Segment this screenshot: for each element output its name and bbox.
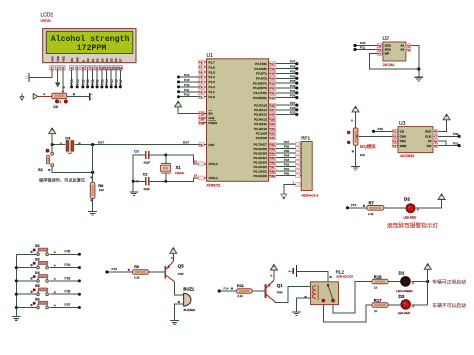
svg-text:3: 3	[62, 66, 64, 70]
svg-text:BUZ1: BUZ1	[183, 287, 195, 292]
wire relay coil bottom to ground	[297, 298, 311, 312]
svg-text:20pF: 20pF	[144, 187, 151, 191]
wire A1 to ground rail	[411, 46, 419, 78]
wire P12 to R7	[348, 207, 367, 209]
svg-text:CH1: CH1	[400, 139, 406, 143]
svg-text:P0.2/AD2: P0.2/AD2	[254, 165, 268, 169]
svg-text:P01: P01	[91, 79, 95, 85]
svg-text:P25: P25	[70, 79, 74, 85]
svg-text:32: 32	[271, 142, 275, 146]
svg-text:8: 8	[92, 66, 94, 70]
svg-text:P0.3/AD3: P0.3/AD3	[254, 160, 268, 164]
svg-text:P04: P04	[105, 79, 109, 85]
svg-text:车辆不可以启动: 车辆不可以启动	[432, 302, 466, 309]
ground MQ	[351, 165, 360, 167]
svg-text:P3.5/T1: P3.5/T1	[256, 72, 267, 76]
ground relay coil	[292, 311, 301, 313]
svg-text:D2: D2	[404, 197, 410, 202]
power arrow EA	[175, 101, 182, 107]
wire LCD pin to net P27	[82, 70, 84, 87]
wire button bus	[15, 254, 17, 316]
RP1 common pin 1	[296, 183, 301, 187]
wire battery to relay common	[296, 271, 328, 282]
U3 pin VCC	[433, 129, 438, 133]
wire LCD data pin to net P02	[96, 70, 98, 87]
svg-text:27: 27	[271, 108, 275, 112]
wire D3 to power rail	[411, 304, 427, 306]
svg-text:4: 4	[71, 66, 73, 70]
power arrow LEDs	[424, 264, 431, 270]
wire S5 to net P36	[49, 293, 79, 295]
transistor Q5	[164, 266, 166, 279]
svg-text:P0.7/AD7: P0.7/AD7	[254, 142, 268, 146]
svg-text:P1.0: P1.0	[209, 95, 216, 99]
wire Q1 collector to relay coil	[275, 286, 311, 302]
wire P11 to SDA	[355, 49, 377, 51]
ground buzzer	[170, 320, 179, 322]
svg-text:D0: D0	[86, 58, 90, 62]
svg-text:12: 12	[271, 86, 275, 90]
U1 EA pin	[199, 111, 205, 115]
svg-text:P35: P35	[65, 250, 71, 254]
U3 pin CH0	[392, 134, 397, 138]
svg-text:12MHz: 12MHz	[175, 171, 185, 175]
svg-text:172PPM: 172PPM	[77, 44, 107, 53]
svg-text:WP: WP	[385, 52, 390, 56]
U3 pin CS	[392, 129, 397, 133]
svg-text:P33: P33	[290, 79, 296, 83]
svg-text:S6: S6	[35, 297, 40, 301]
svg-text:P13: P13	[184, 78, 190, 82]
wire relay NO to R18	[333, 282, 372, 313]
svg-text:16: 16	[271, 67, 275, 71]
svg-text:33: 33	[271, 147, 275, 151]
svg-text:D3: D3	[399, 294, 405, 299]
svg-text:CH0: CH0	[400, 135, 406, 139]
wire S3 to net P34	[49, 267, 79, 269]
svg-text:13: 13	[114, 66, 118, 70]
U3 pin GND	[392, 144, 397, 148]
svg-text:P3.2/INT0: P3.2/INT0	[253, 86, 267, 90]
svg-text:D6: D6	[114, 58, 118, 62]
wire Q1 emitter to power	[273, 271, 275, 281]
svg-text:P27: P27	[82, 79, 86, 85]
svg-text:U1: U1	[207, 53, 214, 59]
svg-text:6: 6	[201, 70, 203, 74]
wire LCD pin to net P26	[76, 70, 78, 87]
svg-text:24: 24	[271, 122, 275, 126]
wire LCD data pin to net P06	[115, 70, 117, 87]
svg-text:36: 36	[271, 160, 275, 164]
svg-text:8: 8	[201, 60, 203, 64]
svg-text:P0.4/AD4: P0.4/AD4	[254, 156, 268, 160]
svg-text:S5: S5	[35, 284, 40, 288]
microcontroller U1 body	[207, 59, 269, 182]
wire R18 to D1	[388, 281, 401, 283]
ground-terminal VSS	[28, 73, 30, 82]
wire reset rail	[51, 134, 53, 145]
svg-text:Q1: Q1	[277, 283, 283, 288]
svg-text:35: 35	[271, 156, 275, 160]
wire LCD data pin to net P00	[87, 70, 89, 87]
svg-text:P34: P34	[65, 263, 71, 267]
svg-text:3: 3	[394, 139, 396, 143]
svg-text:车辆可正常启动: 车辆可正常启动	[432, 278, 466, 285]
svg-text:VCC: VCC	[425, 130, 432, 134]
wire LCD data pin to net P01	[91, 70, 93, 87]
terminal bar right of RV1	[89, 93, 91, 100]
svg-text:酒驾醉驾报警指示灯: 酒驾醉驾报警指示灯	[387, 222, 438, 230]
svg-text:10: 10	[271, 96, 275, 100]
svg-text:2.2k: 2.2k	[237, 294, 243, 298]
U3 pin DO	[433, 144, 438, 148]
svg-text:P05: P05	[284, 149, 290, 153]
ground crystal	[130, 191, 139, 193]
svg-text:1: 1	[51, 66, 53, 70]
svg-text:P07: P07	[284, 140, 290, 144]
svg-text:P26: P26	[76, 79, 80, 85]
svg-text:P14: P14	[224, 286, 230, 290]
svg-text:程序错误时，可点此复位: 程序错误时，可点此复位	[39, 177, 85, 184]
RP1 pins	[296, 142, 301, 146]
svg-text:P02: P02	[96, 79, 100, 85]
wire VCC to power	[438, 120, 447, 131]
svg-text:15: 15	[271, 72, 275, 76]
svg-text:VSS: VSS	[50, 56, 54, 62]
svg-text:D3: D3	[100, 58, 104, 62]
U1 XTAL2 pin	[199, 162, 205, 166]
svg-text:13: 13	[271, 81, 275, 85]
adc U3 body	[398, 127, 433, 153]
svg-text:P14: P14	[184, 73, 190, 77]
svg-text:LED-RED: LED-RED	[398, 311, 410, 315]
svg-text:P37: P37	[65, 303, 71, 307]
svg-text:10: 10	[100, 66, 104, 70]
svg-text:1: 1	[394, 130, 396, 134]
relay RL2 body	[311, 282, 339, 305]
power arrow Q1	[270, 264, 277, 270]
wire crystal left rail	[133, 155, 145, 192]
svg-text:11: 11	[105, 66, 109, 70]
ground R8	[88, 211, 97, 213]
wire RP1 pin1 to power	[284, 185, 296, 195]
svg-text:P13: P13	[112, 267, 118, 271]
svg-text:2: 2	[394, 135, 396, 139]
power arrow D2	[438, 194, 445, 200]
svg-text:XTAL2: XTAL2	[209, 162, 219, 166]
U2 pin WP	[377, 52, 382, 56]
svg-text:22: 22	[271, 131, 275, 135]
resistor-pack RP1 body	[301, 142, 312, 191]
svg-text:14: 14	[119, 66, 123, 70]
svg-text:37: 37	[271, 165, 275, 169]
svg-text:5: 5	[76, 66, 78, 70]
svg-text:6: 6	[82, 66, 84, 70]
svg-text:P31: P31	[290, 89, 296, 93]
svg-text:P05: P05	[110, 79, 114, 85]
svg-text:29: 29	[201, 121, 205, 125]
svg-text:P07: P07	[119, 79, 123, 85]
svg-text:LED-RED: LED-RED	[404, 215, 417, 219]
svg-text:E: E	[81, 60, 85, 62]
svg-text:10k: 10k	[360, 153, 365, 157]
svg-text:R7: R7	[369, 201, 375, 206]
relay coil	[313, 286, 316, 290]
svg-text:S2: S2	[35, 244, 40, 248]
svg-text:P03: P03	[284, 158, 290, 162]
wire MQ wiper to CH0	[359, 135, 392, 137]
svg-text:19: 19	[194, 173, 198, 177]
svg-text:S1: S1	[38, 167, 44, 172]
svg-text:28: 28	[271, 103, 275, 107]
wire Q5 emitter to power	[172, 254, 174, 262]
wire LCD data pin to net P05	[110, 70, 112, 87]
svg-text:BUZZER: BUZZER	[184, 308, 196, 312]
svg-text:MQ模拟: MQ模拟	[360, 143, 376, 150]
wire crystal branch	[165, 155, 167, 163]
wire S2 to net P35	[49, 253, 79, 255]
wire R7 to D2	[384, 207, 406, 209]
svg-text:P2.4/A12: P2.4/A12	[254, 117, 267, 121]
svg-text:2: 2	[57, 66, 59, 70]
LCD screen	[46, 31, 133, 53]
potentiometer RV1	[38, 95, 52, 97]
svg-text:P2.3/A11: P2.3/A11	[254, 122, 267, 126]
svg-text:D7: D7	[119, 58, 123, 62]
svg-text:U2: U2	[383, 36, 390, 42]
svg-text:17: 17	[271, 62, 275, 66]
svg-text:12: 12	[109, 66, 113, 70]
svg-text:6: 6	[435, 139, 437, 143]
svg-text:RST: RST	[209, 143, 215, 147]
svg-text:25: 25	[271, 117, 275, 121]
wire D2 to power	[416, 200, 442, 208]
svg-text:AT89C51: AT89C51	[207, 183, 221, 187]
U1 RST pin	[199, 143, 205, 147]
svg-text:P3.1/TXD: P3.1/TXD	[253, 91, 267, 95]
svg-text:LM016L: LM016L	[41, 19, 52, 23]
svg-text:P2.7/A15: P2.7/A15	[254, 103, 267, 107]
svg-text:P1.5: P1.5	[209, 70, 216, 74]
wire R8 to ground	[92, 199, 94, 212]
wire relay NC to R17	[323, 305, 372, 322]
svg-text:11: 11	[271, 91, 275, 95]
U3 pin CH1	[392, 139, 397, 143]
svg-text:P03: P03	[101, 79, 105, 85]
svg-text:P1.1: P1.1	[209, 90, 216, 94]
svg-text:39: 39	[271, 174, 275, 178]
svg-text:P0.5/AD5: P0.5/AD5	[254, 151, 268, 155]
svg-text:P0.1/AD1: P0.1/AD1	[254, 169, 268, 173]
switch S5	[16, 293, 37, 295]
svg-text:U3: U3	[399, 121, 406, 127]
wire D1 to power rail	[411, 281, 427, 283]
svg-text:P31: P31	[453, 141, 459, 145]
power arrow Q5	[170, 248, 177, 254]
svg-text:34: 34	[271, 151, 275, 155]
svg-text:P3.4/T0: P3.4/T0	[256, 76, 267, 80]
svg-text:P1.2: P1.2	[209, 85, 216, 89]
svg-text:RW: RW	[76, 57, 80, 62]
wire DI-DO join to P31	[438, 141, 446, 146]
svg-text:RESPACK-8: RESPACK-8	[302, 193, 319, 197]
switch S6	[16, 307, 37, 309]
svg-text:D4: D4	[105, 58, 109, 62]
svg-text:3: 3	[201, 85, 203, 89]
svg-text:P04: P04	[284, 154, 290, 158]
wire power rail vertical	[427, 270, 429, 305]
resistor R8	[90, 182, 95, 198]
wire LCD data pin to net P07	[119, 70, 121, 87]
svg-text:P0.0/AD0: P0.0/AD0	[254, 174, 268, 178]
terminal small down-arrow	[21, 93, 23, 96]
wire S1 to R8 node	[52, 167, 92, 173]
power VDD down-arrow	[55, 83, 60, 87]
svg-text:P2.5/A13: P2.5/A13	[254, 113, 267, 117]
svg-text:R6: R6	[134, 265, 139, 269]
U3 pin CLK	[433, 134, 438, 138]
svg-text:ALE: ALE	[209, 116, 215, 120]
svg-text:P00: P00	[86, 79, 90, 85]
svg-text:PNP: PNP	[178, 272, 184, 276]
svg-text:RP1: RP1	[301, 136, 310, 141]
svg-text:P11: P11	[184, 88, 190, 92]
wire LCD VEE to RV1 wiper	[62, 70, 64, 93]
svg-text:P06: P06	[114, 79, 118, 85]
crystal X1	[161, 163, 171, 165]
ground U2	[414, 76, 423, 78]
svg-text:P06: P06	[284, 145, 290, 149]
svg-text:P32: P32	[378, 127, 384, 131]
svg-text:G2R-1E-DC5: G2R-1E-DC5	[336, 275, 353, 279]
svg-text:P3.3/INT1: P3.3/INT1	[253, 81, 267, 85]
svg-text:1: 1	[201, 95, 203, 99]
svg-text:3: 3	[408, 48, 410, 52]
svg-text:P25: P25	[290, 110, 296, 114]
svg-text:7: 7	[87, 66, 89, 70]
svg-text:P37: P37	[290, 60, 296, 64]
wire LCD data pin to net P04	[106, 70, 108, 87]
svg-text:24C04A: 24C04A	[383, 63, 395, 67]
svg-text:P35: P35	[290, 69, 296, 73]
svg-text:LED-GREEN: LED-GREEN	[396, 289, 412, 293]
wire P32 to CS	[374, 130, 393, 132]
svg-text:RST: RST	[98, 140, 104, 144]
wire P14 to R11	[219, 290, 236, 292]
wire LCD VSS to ground terminal	[29, 70, 52, 77]
svg-text:R11: R11	[237, 284, 244, 288]
svg-text:CS: CS	[400, 130, 404, 134]
U1 ALE pin	[199, 116, 205, 120]
svg-text:P33: P33	[65, 276, 71, 280]
svg-text:P3.6/WR: P3.6/WR	[254, 67, 267, 71]
U1 P1 pins	[199, 60, 205, 64]
U2 pin SCK	[377, 44, 382, 48]
svg-text:P3.7/RD: P3.7/RD	[255, 62, 267, 66]
svg-text:38: 38	[271, 169, 275, 173]
wire C2 to XTAL1	[149, 178, 199, 181]
wire LCD data pin to net P03	[101, 70, 103, 87]
U1 PSEN pin	[199, 121, 205, 125]
svg-text:4: 4	[201, 80, 203, 84]
U2 right pins A1 A2	[406, 44, 411, 48]
power arrow MQ	[352, 106, 359, 112]
svg-text:P2.0/A8: P2.0/A8	[256, 136, 267, 140]
U1 P1.4-P1.0 net wires	[179, 76, 199, 78]
svg-text:2.2k: 2.2k	[134, 276, 140, 280]
wire EA to power	[178, 107, 199, 113]
svg-text:RST: RST	[183, 140, 189, 144]
svg-text:S3: S3	[35, 258, 40, 262]
svg-text:2.2k: 2.2k	[368, 212, 374, 216]
svg-text:XTAL1: XTAL1	[209, 176, 219, 180]
svg-text:5: 5	[435, 144, 437, 148]
battery supply relay	[290, 270, 293, 272]
svg-text:7: 7	[201, 65, 203, 69]
svg-text:23: 23	[271, 127, 275, 131]
wire S6 to net P37	[49, 307, 79, 309]
svg-text:D5: D5	[110, 58, 114, 62]
wire R17 to D3	[388, 304, 401, 306]
LCD pin numbers	[50, 66, 54, 70]
wire S4 to net P33	[49, 280, 79, 282]
svg-text:30: 30	[201, 116, 205, 120]
svg-text:P02: P02	[284, 163, 290, 167]
svg-text:P12: P12	[351, 203, 357, 207]
svg-text:P00: P00	[284, 172, 290, 176]
svg-text:P1.3: P1.3	[209, 80, 216, 84]
svg-text:DO: DO	[427, 144, 432, 148]
power arrow reset	[49, 128, 56, 134]
svg-text:26: 26	[271, 113, 275, 117]
wire R11 to Q1 base	[252, 290, 265, 292]
svg-text:C4: C4	[65, 135, 71, 140]
ground buttons	[12, 316, 21, 318]
relay contacts	[327, 284, 330, 287]
wire P10 to SCK	[355, 45, 377, 47]
wire relay coil top pin	[308, 285, 311, 287]
svg-text:P3.0/RXD: P3.0/RXD	[253, 96, 268, 100]
svg-text:P2.2/A10: P2.2/A10	[254, 127, 267, 131]
transistor Q1	[265, 284, 267, 298]
switch S4	[16, 280, 37, 282]
svg-text:5: 5	[201, 75, 203, 79]
svg-text:7: 7	[379, 52, 381, 56]
U1 XTAL1 pin	[199, 176, 205, 180]
wire Q5 collector to buzzer	[175, 282, 184, 295]
svg-text:2: 2	[201, 90, 203, 94]
svg-text:D2: D2	[96, 58, 100, 62]
wire RST vertical	[92, 145, 94, 183]
wire MQ top	[355, 112, 357, 128]
svg-text:DI: DI	[428, 139, 431, 143]
power arrow U3	[443, 114, 450, 120]
svg-text:21: 21	[271, 136, 275, 140]
wire MQ bottom to ground	[355, 145, 357, 166]
svg-text:A2: A2	[400, 48, 404, 52]
svg-text:X1: X1	[176, 165, 182, 170]
svg-text:ADC0832: ADC0832	[400, 154, 414, 158]
svg-text:P1.6: P1.6	[209, 65, 216, 69]
svg-text:P10: P10	[184, 93, 190, 97]
svg-text:P34: P34	[290, 74, 296, 78]
svg-text:RS: RS	[70, 58, 74, 62]
svg-text:P30: P30	[453, 132, 459, 136]
svg-text:9: 9	[201, 143, 203, 147]
switch S1	[51, 145, 53, 153]
power down-arrow RP1	[281, 194, 287, 199]
U2 pin SDA	[377, 48, 382, 52]
